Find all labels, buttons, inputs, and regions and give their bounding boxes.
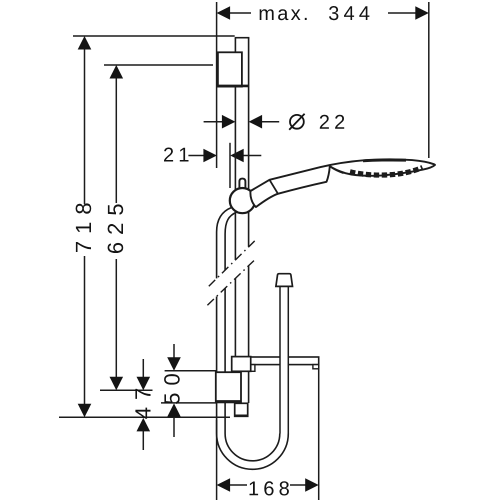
- extension line bottom long (rail bottom, for 718/47): [59, 416, 230, 418]
- hose right vertical run (in front of bar): [276, 274, 293, 434]
- arrow 718 bottom: [78, 404, 92, 418]
- extension line for 21 (holder axis): [229, 143, 231, 188]
- bottom slider bracket: [216, 372, 248, 416]
- neck crease: [331, 167, 344, 173]
- dimension 47 stems: [142, 359, 144, 379]
- text 50: [164, 374, 180, 404]
- bar lip right: [313, 365, 319, 369]
- text 21: [164, 148, 189, 162]
- extension line (bracket top, for 625): [104, 64, 213, 66]
- text max. 344: [260, 9, 307, 20]
- text 47: [135, 389, 150, 419]
- holder pin: [239, 179, 245, 192]
- dimension line max.344: [230, 12, 252, 14]
- holder ring: [230, 188, 255, 213]
- arrow 47 top (points down): [137, 377, 151, 391]
- arrow 21 right (points left): [230, 149, 244, 163]
- cone joint line: [270, 180, 279, 194]
- wall bracket (top): [218, 52, 249, 86]
- shelf block and bar (bottom right): [232, 357, 319, 372]
- block: [232, 357, 251, 372]
- dimension 168: [216, 420, 218, 500]
- dimension 21: [188, 155, 205, 157]
- head top thick line: [363, 159, 406, 163]
- extension line top (rail top, for 718): [73, 35, 235, 37]
- arrow 50 bottom (points up): [167, 403, 181, 417]
- dimension Ø22: [204, 121, 223, 123]
- arrow 47 bottom (points up): [137, 418, 151, 432]
- arrow 21 left (points right): [203, 149, 217, 163]
- dimension line 718: [84, 49, 86, 204]
- arrow 625 top: [110, 65, 124, 79]
- text 718: [76, 203, 92, 252]
- hose U-bend: [217, 434, 289, 470]
- extension line (for 625/47 top): [100, 389, 153, 391]
- hose from holder, left vertical run: [217, 208, 232, 279]
- text 168: [250, 481, 289, 495]
- extension line right (head reach): [428, 2, 430, 158]
- arrow 50 top (points down): [167, 357, 181, 371]
- text Ø 22: [320, 115, 344, 129]
- bar step lip left: [251, 365, 255, 372]
- dimension 50 stems: [173, 344, 175, 359]
- extension line left (wall plane): [216, 2, 218, 168]
- arrow d22 right (points left): [249, 115, 263, 129]
- arrow 718 top: [78, 36, 92, 50]
- hand shower body (cone + handle + head): [250, 159, 435, 207]
- break lines (dash-dot): [207, 239, 256, 305]
- rail tube left edge: [234, 38, 236, 53]
- bar: [251, 357, 319, 365]
- arrow max344 left: [217, 6, 231, 20]
- conical hose nut: [276, 274, 293, 287]
- rail bottom cap: [235, 403, 248, 416]
- arrow d22 left (points right): [222, 115, 236, 129]
- extension line (bracket bottom, for 50): [161, 402, 216, 404]
- rail top cap: [235, 37, 250, 39]
- dimension line 625: [115, 78, 117, 203]
- rail tube right edge: [248, 38, 250, 247]
- break line lower: [207, 259, 255, 305]
- diameter symbol: [290, 115, 304, 129]
- arrow 168 right: [305, 478, 319, 492]
- arrow 168 left: [217, 478, 231, 492]
- text 625: [108, 204, 124, 253]
- arrow max344 right: [415, 6, 429, 20]
- extension line (bracket top, for 50): [165, 370, 217, 372]
- break line upper: [209, 239, 257, 286]
- arrow 625 bottom: [110, 377, 124, 391]
- nozzle row: [350, 168, 423, 176]
